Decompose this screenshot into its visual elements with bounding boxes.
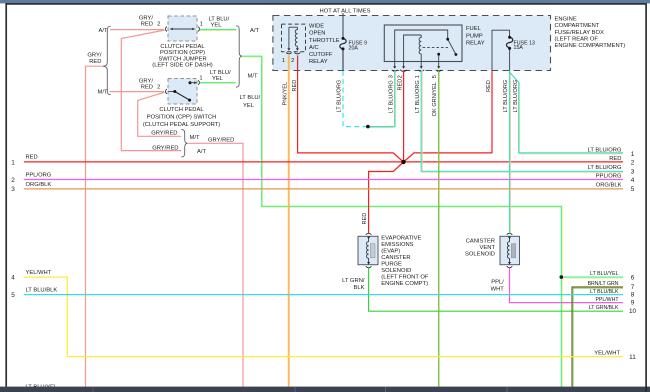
left bus labels bbox=[26, 155, 58, 391]
svg-text:A/T: A/T bbox=[197, 149, 206, 155]
splice dot on LT BLU/ORG bbox=[366, 125, 370, 129]
wire LT GRN/BLK from EVAP to row 10 bbox=[369, 268, 623, 311]
svg-text:M/T: M/T bbox=[190, 135, 200, 141]
svg-text:SOLENOID: SOLENOID bbox=[381, 268, 411, 274]
wire PPL/ORG bus row bbox=[24, 179, 623, 181]
hot at all times feed wire bbox=[342, 13, 344, 39]
wire DK GRN/YEL relay pin5 down to bottom bbox=[438, 71, 440, 387]
relay top link bbox=[289, 26, 298, 28]
svg-text:YEL: YEL bbox=[211, 23, 223, 29]
wire PNK/YEL from WOT pin1 down to bottom bbox=[287, 55, 289, 386]
svg-text:LT BLU/BLK: LT BLU/BLK bbox=[26, 288, 58, 294]
wire LT BLU/ORG dashed from fuse 9 bbox=[343, 71, 368, 127]
svg-text:GRY/: GRY/ bbox=[87, 53, 101, 59]
svg-text:COMPARTMENT: COMPARTMENT bbox=[555, 23, 600, 29]
svg-text:RED: RED bbox=[89, 59, 101, 65]
jumper double arrow bbox=[171, 28, 195, 30]
svg-text:OPEN: OPEN bbox=[309, 31, 325, 37]
relay coil bbox=[295, 27, 297, 48]
WOT A/C cutoff relay (dashed box) bbox=[282, 24, 306, 52]
WOT pin arrows bbox=[287, 48, 290, 51]
svg-text:EMISSIONS: EMISSIONS bbox=[381, 242, 413, 248]
svg-text:CUTOFF: CUTOFF bbox=[309, 52, 333, 58]
fuse 9 bbox=[340, 39, 346, 71]
right bus labels bbox=[588, 147, 622, 356]
svg-text:(EVAP): (EVAP) bbox=[381, 249, 400, 255]
svg-text:DK GRN/YEL: DK GRN/YEL bbox=[432, 82, 438, 116]
svg-text:PPL/ORG: PPL/ORG bbox=[596, 173, 622, 179]
EVAP purge solenoid box bbox=[358, 236, 378, 264]
svg-text:THROTTLE: THROTTLE bbox=[309, 38, 340, 44]
wire GRY/RED M/T to CPP switch pin 2 bbox=[110, 91, 164, 93]
wire LT BLU/YEL CPP pin1 to brace bbox=[200, 83, 236, 85]
brace left (GRY/RED split) bbox=[102, 26, 110, 94]
svg-text:1: 1 bbox=[200, 22, 203, 28]
svg-text:RED: RED bbox=[141, 84, 153, 90]
svg-text:HOT AT ALL TIMES: HOT AT ALL TIMES bbox=[320, 8, 371, 14]
svg-text:YEL: YEL bbox=[212, 76, 224, 82]
svg-text:3: 3 bbox=[389, 75, 395, 78]
svg-text:GRY/: GRY/ bbox=[139, 16, 153, 22]
svg-text:(LEFT REAR OF: (LEFT REAR OF bbox=[555, 37, 599, 43]
svg-text:LT BLU/ORG: LT BLU/ORG bbox=[337, 80, 343, 113]
svg-text:2: 2 bbox=[11, 177, 15, 184]
svg-text:YEL/WHT: YEL/WHT bbox=[594, 351, 620, 357]
svg-text:FUSE/RELAY BOX: FUSE/RELAY BOX bbox=[555, 30, 605, 36]
svg-text:CLUTCH PEDAL: CLUTCH PEDAL bbox=[160, 44, 205, 50]
svg-text:15A: 15A bbox=[514, 45, 524, 51]
svg-text:VENT: VENT bbox=[480, 245, 496, 251]
svg-text:GRY/RED: GRY/RED bbox=[151, 130, 177, 136]
svg-text:LT BLU/ORG: LT BLU/ORG bbox=[389, 80, 395, 113]
WOT pin cups bbox=[286, 53, 292, 54]
CPP switch jumper box bbox=[168, 16, 197, 41]
svg-text:2: 2 bbox=[291, 58, 294, 64]
svg-text:PURGE: PURGE bbox=[381, 262, 402, 268]
wire LT BLU/BLK row 5 to row 8 bbox=[24, 294, 623, 296]
CPP switch blade and contacts bbox=[169, 91, 175, 93]
svg-text:ENGINE COMPT): ENGINE COMPT) bbox=[381, 281, 428, 287]
svg-text:RED: RED bbox=[141, 22, 153, 28]
svg-text:PPL/ORG: PPL/ORG bbox=[26, 172, 52, 178]
wire YEL/WHT row 4 to row 11 bbox=[24, 277, 623, 357]
svg-text:7: 7 bbox=[631, 284, 635, 291]
svg-text:ENGINE: ENGINE bbox=[555, 16, 577, 22]
brace lower (GRY/RED join) bbox=[181, 130, 187, 158]
CPP switch box bbox=[168, 79, 197, 105]
svg-text:SOLENOID: SOLENOID bbox=[465, 252, 495, 258]
svg-text:FUEL: FUEL bbox=[466, 26, 482, 32]
jumper pin cups bbox=[166, 27, 167, 32]
svg-text:LT BLU/: LT BLU/ bbox=[209, 17, 230, 23]
svg-text:SWITCH JUMPER: SWITCH JUMPER bbox=[158, 56, 206, 62]
svg-text:RELAY: RELAY bbox=[309, 59, 328, 65]
svg-text:WHT: WHT bbox=[491, 287, 505, 293]
svg-text:LT GRN/BLK: LT GRN/BLK bbox=[589, 305, 619, 311]
rotated wire labels bbox=[283, 79, 519, 225]
svg-text:2: 2 bbox=[631, 160, 635, 167]
brace right (LT BLU/YEL join) bbox=[236, 26, 242, 87]
wire ORG/BLK bus row bbox=[24, 188, 623, 190]
svg-text:A/T: A/T bbox=[250, 28, 259, 34]
frame top bbox=[5, 3, 647, 5]
svg-text:LT BLU/ORG: LT BLU/ORG bbox=[588, 147, 622, 153]
wire LT BLU/YEL from brace point, down, across, down to bottom bbox=[242, 57, 563, 386]
svg-text:A/T: A/T bbox=[98, 28, 107, 34]
svg-text:4: 4 bbox=[631, 177, 635, 184]
wire RED junction to EVAP solenoid bbox=[369, 162, 404, 233]
svg-text:LT BLU/ORG: LT BLU/ORG bbox=[513, 80, 519, 113]
engine compartment fuse/relay box (dashed) bbox=[273, 16, 551, 71]
svg-text:M/T: M/T bbox=[98, 90, 108, 96]
bottom task bar bbox=[0, 387, 650, 392]
svg-text:RED: RED bbox=[292, 80, 298, 92]
svg-text:5: 5 bbox=[631, 186, 635, 193]
wire LT BLU/ORG branch to row 1 bbox=[520, 83, 623, 155]
solenoid labels bbox=[342, 236, 504, 293]
svg-text:5: 5 bbox=[11, 292, 15, 299]
svg-text:1: 1 bbox=[282, 58, 285, 64]
svg-text:PUMP: PUMP bbox=[466, 33, 483, 39]
svg-text:GRY/: GRY/ bbox=[139, 78, 153, 84]
svg-text:M/T: M/T bbox=[248, 73, 258, 79]
wire LT BLU/ORG relay pin1 to row 3 bbox=[422, 71, 623, 173]
wire CPP pin2 down to M/T brace lower bbox=[138, 92, 182, 136]
svg-text:LT BLU/ORG: LT BLU/ORG bbox=[415, 80, 421, 113]
svg-text:BLK: BLK bbox=[354, 285, 365, 291]
svg-text:POSITION (CPP): POSITION (CPP) bbox=[160, 50, 205, 56]
fuel pump relay pin stubs + arrows + cups bbox=[395, 62, 439, 67]
svg-text:CLUTCH PEDAL: CLUTCH PEDAL bbox=[159, 107, 204, 113]
svg-text:9: 9 bbox=[631, 300, 635, 307]
wire GRY/RED lower output down to bottom bbox=[188, 143, 243, 386]
wire RED fuel pump relay pin2 to junction bbox=[403, 71, 405, 163]
fuse 13 + feed bbox=[492, 30, 510, 70]
svg-text:ORG/BLK: ORG/BLK bbox=[596, 183, 622, 189]
svg-text:CANISTER: CANISTER bbox=[466, 239, 495, 245]
wire RED bus row left-right bbox=[24, 161, 623, 163]
fuel pump relay box bbox=[384, 25, 462, 62]
svg-text:2: 2 bbox=[398, 75, 404, 78]
svg-text:(LEFT FRONT OF: (LEFT FRONT OF bbox=[381, 275, 429, 281]
svg-text:RED: RED bbox=[486, 80, 492, 92]
svg-text:1: 1 bbox=[631, 151, 635, 158]
svg-text:A/C: A/C bbox=[309, 45, 319, 51]
svg-text:LT BLU/ORG: LT BLU/ORG bbox=[503, 80, 509, 113]
svg-text:20A: 20A bbox=[349, 45, 359, 51]
frame left bbox=[5, 4, 7, 387]
svg-text:ORG/BLK: ORG/BLK bbox=[26, 182, 52, 188]
frame right bbox=[645, 4, 647, 387]
svg-text:ENGINE COMPARTMENT): ENGINE COMPARTMENT) bbox=[555, 43, 626, 49]
svg-text:8: 8 bbox=[631, 292, 635, 299]
svg-text:LT BLU/YEL: LT BLU/YEL bbox=[590, 271, 618, 277]
svg-text:RELAY: RELAY bbox=[466, 40, 485, 46]
svg-text:10: 10 bbox=[629, 308, 637, 315]
CPP switch pin cups bbox=[166, 89, 167, 94]
svg-text:3: 3 bbox=[11, 186, 15, 193]
svg-text:1: 1 bbox=[415, 75, 421, 78]
wire jumper pin2 down to A/T brace lower bbox=[121, 30, 181, 151]
svg-text:LT BLU/: LT BLU/ bbox=[240, 95, 261, 101]
svg-text:3: 3 bbox=[631, 168, 635, 175]
wire RED from fuse 13 to junction bbox=[404, 71, 493, 163]
svg-text:BRN/LT GRN: BRN/LT GRN bbox=[588, 281, 619, 287]
canister vent solenoid box bbox=[500, 236, 520, 264]
svg-text:LT BLU/BLK: LT BLU/BLK bbox=[590, 289, 619, 295]
wire LT BLU/ORG fuse13 down to vent solenoid bbox=[510, 71, 512, 234]
svg-text:6: 6 bbox=[631, 274, 635, 281]
svg-text:1: 1 bbox=[11, 159, 15, 166]
wire LT BLU/YEL jumper pin1 to brace bbox=[200, 30, 237, 32]
svg-text:1: 1 bbox=[199, 75, 202, 81]
svg-text:(CLUTCH PEDAL SUPPORT): (CLUTCH PEDAL SUPPORT) bbox=[143, 122, 220, 128]
top window bar bbox=[0, 0, 650, 3]
svg-text:LT GRN/: LT GRN/ bbox=[342, 278, 365, 284]
svg-text:EVAPORATIVE: EVAPORATIVE bbox=[381, 236, 421, 242]
svg-text:5: 5 bbox=[432, 75, 438, 78]
svg-text:PPL/: PPL/ bbox=[491, 280, 504, 286]
svg-text:RED: RED bbox=[362, 213, 368, 225]
svg-text:YEL: YEL bbox=[243, 103, 255, 109]
svg-text:PPL/WHT: PPL/WHT bbox=[595, 297, 619, 303]
svg-text:CANISTER: CANISTER bbox=[381, 255, 410, 261]
svg-text:YEL/WHT: YEL/WHT bbox=[26, 270, 52, 276]
svg-text:RED: RED bbox=[609, 156, 621, 162]
svg-text:PNK/YEL: PNK/YEL bbox=[283, 82, 289, 106]
splice dot on LT BLU/YEL row6 bbox=[560, 275, 564, 279]
pin numbers bbox=[282, 58, 438, 79]
svg-text:11: 11 bbox=[629, 354, 636, 361]
wire GRY/RED feed upper-left, down to bottom bbox=[86, 66, 102, 386]
svg-text:(LEFT SIDE OF DASH): (LEFT SIDE OF DASH) bbox=[152, 63, 213, 69]
wire GRY/RED A/T to jumper pin 2 bbox=[110, 29, 164, 31]
wire LT BLU/YEL row 6 branch bbox=[561, 277, 623, 279]
junction dot main bbox=[401, 160, 405, 164]
svg-text:POSITION (CPP) SWITCH: POSITION (CPP) SWITCH bbox=[147, 115, 217, 121]
svg-text:GRY/RED: GRY/RED bbox=[152, 146, 178, 152]
wire RED from WOT pin2 to junction bbox=[298, 55, 404, 162]
svg-text:GRY/RED: GRY/RED bbox=[208, 137, 234, 143]
svg-text:4: 4 bbox=[11, 275, 15, 282]
wire BRN/LT GRN row 7 from bottom bbox=[573, 288, 623, 387]
svg-text:2: 2 bbox=[157, 22, 160, 28]
relay contact line bbox=[288, 27, 290, 48]
svg-text:RED: RED bbox=[26, 155, 38, 161]
svg-text:LT BLU/ORG: LT BLU/ORG bbox=[588, 165, 622, 171]
svg-text:WIDE: WIDE bbox=[309, 24, 324, 30]
svg-text:RED: RED bbox=[398, 79, 404, 91]
wire LT BLU/ORG solid to relay pin 3 bbox=[368, 127, 394, 129]
svg-text:LT BLU/: LT BLU/ bbox=[210, 70, 231, 76]
svg-text:2: 2 bbox=[157, 84, 160, 90]
wire PPL/WHT from vent solenoid to row 9 bbox=[510, 268, 624, 303]
